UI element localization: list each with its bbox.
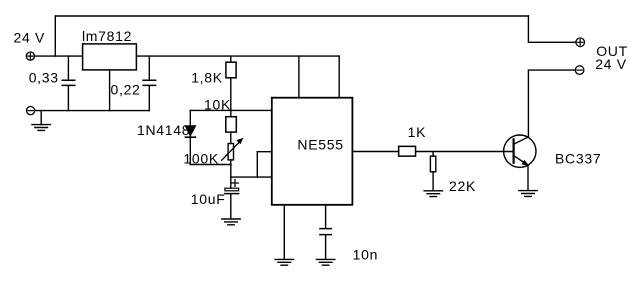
wire 1K to transistor base [416,151,513,153]
wire node row to NE555 pin7 [190,109,271,111]
svg-text:lm7812: lm7812 [82,28,132,44]
wire between 10K node and 10K resistor [230,110,232,116]
capacitor C4 10n [320,229,331,235]
wire 22K gnd stem [432,172,434,191]
wire pin6 to pin2 tie [256,152,258,177]
svg-text:10K: 10K [204,97,231,113]
resistor R2 10K [226,117,237,132]
capacitor C3 10uF polarized [225,180,239,194]
wire 22K top stub [432,152,434,157]
wire NE555 pin1 gnd stem [283,205,285,259]
wire 0.22 cap top stem [148,56,150,80]
resistor R4 1K [399,146,416,156]
wire left drop from top rail [54,16,56,56]
wire ground stem input [40,111,42,125]
terminal + OUT [576,38,585,47]
wire + IN to regulator [35,55,83,57]
wire 0.33 cap bottom stem [67,86,69,111]
svg-text:BC337: BC337 [555,151,601,167]
wire 10uF bottom stem [230,194,232,219]
svg-text:1,8K: 1,8K [191,70,223,86]
svg-text:0,33: 0,33 [29,70,59,86]
wire 1.8K top stem [230,56,232,62]
wire pin6 stub [257,151,272,153]
regulator lm7812 U1 [83,44,137,70]
resistor R1 1,8K [226,62,236,78]
capacitor C2 0,22 [143,80,156,85]
wire pin2 row [231,176,272,178]
wire between 10K and trimmer [230,132,232,143]
wire 0.22 cap bottom stem [148,86,150,111]
svg-text:100K: 100K [183,151,219,167]
terminal + IN [26,52,34,60]
svg-text:22K: 22K [449,178,476,194]
svg-text:1K: 1K [408,124,427,140]
wire regulator output rail [136,55,339,57]
wire bottom node row [190,164,231,166]
ground 10n [316,259,334,265]
ground input [32,125,50,131]
terminal - OUT [575,66,584,75]
ground 22K [424,191,442,197]
wire trimmer bottom down to cap [230,160,232,188]
wire NE555 top pin right [338,56,340,98]
wire 1.8K bottom to node [230,78,232,111]
wire NE555 top pin left [298,56,300,98]
capacitor C1 0,33 [62,80,75,85]
svg-text:24 V: 24 V [595,56,627,72]
wire OUT+ drop and lead [528,16,576,42]
wire emitter gnd stem [527,166,529,191]
svg-text:10n: 10n [353,246,378,262]
wire 0.33 cap top stem [67,56,69,80]
terminal - IN [27,107,35,115]
diode D1 1N4148 [185,126,195,137]
wire regulator gnd pin [109,70,111,111]
svg-text:24 V: 24 V [14,29,46,45]
svg-text:10uF: 10uF [191,191,226,207]
wire OUT- lead and collector drop [528,70,575,137]
transistor Q1 BC337 [504,135,536,167]
wire NE555 output to 1K [352,151,398,153]
wire top rail [55,15,528,17]
svg-text:0,22: 0,22 [111,82,141,98]
svg-text:NE555: NE555 [297,137,343,153]
ground emitter [519,191,537,197]
wire NE555 pin5 stem [325,205,327,228]
ground 10uF [222,219,240,225]
wire diode branch vertical [189,110,191,164]
ground NE555 pin1 [275,259,293,265]
svg-text:1N4148: 1N4148 [137,122,190,138]
wire 10n bottom stem [325,235,327,259]
IC U2 NE555 [272,98,353,205]
wire bottom rail [35,110,150,112]
resistor R5 22K [430,156,435,172]
trimmer R3 100K [222,138,243,160]
